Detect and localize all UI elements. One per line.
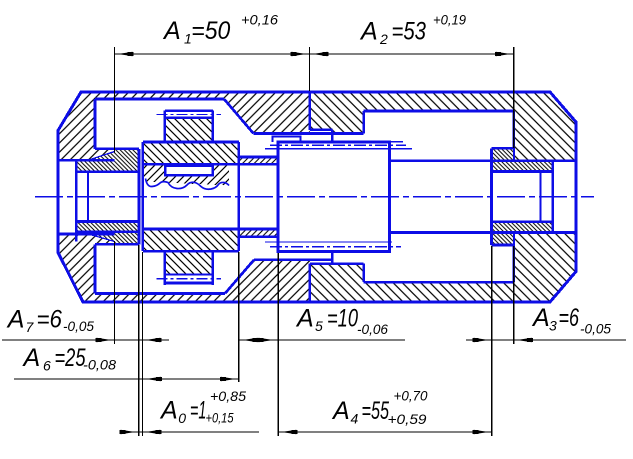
svg-text:4: 4 — [351, 411, 359, 427]
svg-text:6: 6 — [43, 358, 51, 374]
gear hub hatched sections — [143, 142, 239, 164]
svg-text:=50: =50 — [191, 17, 230, 45]
dimension line A5 — [240, 339, 405, 341]
svg-text:=25: =25 — [55, 344, 86, 372]
svg-text:+0,16: +0,16 — [241, 12, 278, 28]
dimension line A4 — [278, 431, 491, 433]
housing body lower hatched section — [58, 234, 310, 302]
svg-text:+0,70: +0,70 — [394, 388, 428, 404]
svg-text:+0,59: +0,59 — [388, 411, 427, 427]
cup (right cover) hatched sections — [310, 92, 333, 130]
svg-text:A: A — [162, 17, 181, 45]
left bushing outline — [75, 160, 78, 241]
gear pitch line upper — [157, 113, 221, 115]
dimension line A3 — [466, 339, 626, 341]
shaft / bore lines — [390, 159, 576, 162]
cup rim left faces — [308, 92, 311, 130]
svg-text:A: A — [331, 397, 350, 425]
dimension line A0 — [122, 431, 259, 433]
svg-text:+0,15: +0,15 — [206, 410, 234, 426]
svg-text:-0,05: -0,05 — [63, 318, 94, 334]
housing body upper hatched section — [58, 92, 310, 160]
wavy break line — [146, 179, 230, 190]
left bushing fine hatch upper — [76, 149, 139, 172]
dimension line A6 — [14, 378, 239, 380]
svg-text:A: A — [295, 305, 314, 333]
right bushing outline — [490, 148, 493, 245]
svg-text:=53: =53 — [392, 18, 427, 46]
svg-text:-0,06: -0,06 — [357, 321, 388, 337]
gear pitch line lower — [157, 278, 221, 280]
centerline — [35, 196, 594, 198]
svg-text:A: A — [6, 306, 25, 334]
housing inner cavity lower — [95, 292, 225, 295]
gear tooth lower — [163, 251, 166, 285]
dimension line A7 — [2, 339, 169, 341]
svg-text:=6: =6 — [37, 306, 63, 334]
right bushing fine hatch lower — [492, 222, 553, 245]
collar ring on tube — [273, 136, 301, 141]
sleeve top edge stub — [390, 141, 404, 143]
svg-text:=1: =1 — [190, 397, 206, 425]
svg-text:3: 3 — [549, 318, 557, 334]
left bushing fine hatch lower — [76, 221, 139, 244]
housing inner cavity upper — [95, 98, 224, 101]
svg-text:A: A — [359, 18, 378, 46]
svg-text:=10: =10 — [327, 305, 358, 333]
svg-text:A: A — [22, 344, 41, 372]
svg-text:0: 0 — [178, 410, 186, 426]
gear tooth upper — [163, 111, 166, 142]
svg-text:-0,05: -0,05 — [580, 321, 611, 337]
svg-text:7: 7 — [26, 319, 35, 335]
svg-text:5: 5 — [315, 318, 323, 334]
pusher tube walls — [239, 156, 278, 159]
svg-text:-0,08: -0,08 — [83, 357, 116, 373]
extension lines — [114, 47, 116, 153]
keyway rectangle in local section — [165, 166, 213, 175]
pusher tube fine hatch walls — [239, 157, 278, 164]
cup inner steps — [362, 111, 365, 134]
gear part outline — [141, 142, 144, 251]
svg-text:A: A — [159, 397, 178, 425]
right bushing fine hatch upper — [492, 148, 553, 171]
svg-text:=55: =55 — [362, 397, 390, 425]
housing outer outline — [58, 92, 576, 302]
gear local section (thread break-out) hatch — [143, 164, 229, 185]
svg-text:=6: =6 — [559, 304, 580, 332]
sleeve nut outline — [278, 142, 389, 252]
svg-text:2: 2 — [379, 31, 388, 47]
svg-text:A: A — [531, 304, 550, 332]
dimension line A1 A2 — [115, 53, 514, 55]
svg-text:+0,85: +0,85 — [210, 388, 246, 404]
sleeve thread dash-dot — [270, 144, 406, 146]
svg-text:+0,19: +0,19 — [433, 12, 466, 28]
sleeve thread thin lines — [265, 148, 412, 150]
